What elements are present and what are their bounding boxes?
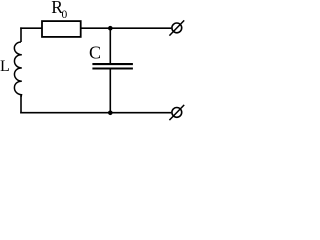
terminal: bottom output (169, 105, 184, 120)
terminal: top output (169, 20, 184, 35)
wire: left side, bottom segment from inductor to bottom rail (20, 95, 22, 114)
svg-text:L: L (0, 58, 10, 75)
capacitor C (92, 64, 132, 68)
inductor L (14, 42, 21, 97)
junction: bottom node (108, 111, 113, 116)
wire: left side, top segment down to inductor (20, 27, 22, 42)
wire: capacitor branch, upper (109, 28, 111, 63)
wire: capacitor branch, lower (109, 69, 111, 112)
svg-text:0: 0 (62, 9, 68, 21)
wire: top rail from left corner to top terminal (20, 27, 171, 29)
resistor R0 (42, 21, 81, 37)
wire: bottom rail (20, 112, 171, 114)
junction: top node (108, 26, 113, 31)
svg-text:C: C (89, 43, 101, 63)
